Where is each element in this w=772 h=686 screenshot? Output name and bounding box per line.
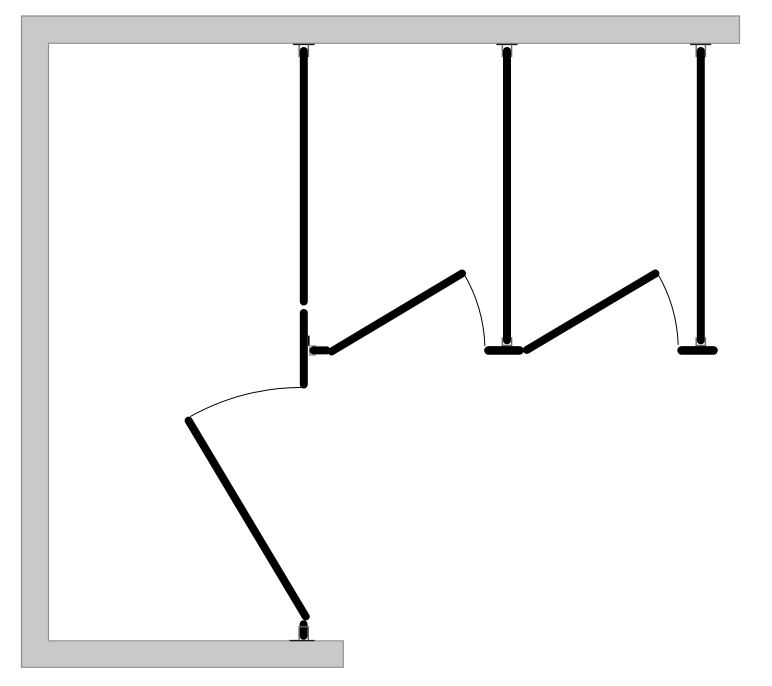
bracket line top 2 bbox=[496, 43, 517, 45]
pilaster 3 bbox=[697, 51, 705, 340]
door 1 swing arc bbox=[464, 274, 485, 347]
bracket line top 1 bbox=[293, 43, 315, 45]
door 3 leaf bbox=[189, 421, 306, 617]
T-bar latch stub at pilaster 3 bbox=[682, 346, 714, 355]
pilaster 1 lower segment bbox=[300, 313, 308, 385]
hinge tab on pilaster 1 bbox=[308, 336, 310, 346]
pilaster 2 bbox=[503, 51, 511, 340]
door 3 hinge post at bottom wall bbox=[300, 624, 308, 636]
bracket line bottom bbox=[290, 640, 315, 642]
bracket line top 3 bbox=[690, 43, 711, 45]
door 1 leaf bbox=[332, 274, 463, 352]
bracket channel top 2 bbox=[502, 45, 511, 57]
bracket channel top 1 bbox=[299, 45, 308, 57]
hinge channel on pilaster 1 bbox=[310, 346, 316, 355]
pilaster 1 upper segment bbox=[300, 51, 308, 302]
bracket channel bottom of pilaster 3 bbox=[696, 337, 705, 345]
door 2 leaf bbox=[527, 274, 656, 350]
door 3 swing arc bbox=[190, 387, 303, 416]
door 2 swing arc bbox=[657, 273, 678, 345]
bracket channel bottom bbox=[299, 627, 308, 640]
bracket channel top 3 bbox=[696, 45, 705, 57]
hinge stub of door 1 bbox=[314, 346, 327, 354]
T-bar latch stub at pilaster 2 bbox=[489, 346, 520, 355]
bracket channel bottom of pilaster 2 bbox=[502, 337, 511, 345]
